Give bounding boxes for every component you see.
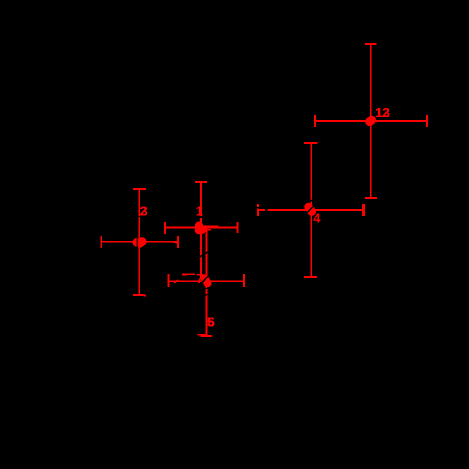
svg-text:13: 13 bbox=[376, 105, 390, 120]
svg-text:6: 6 bbox=[208, 314, 215, 329]
svg-text:7: 7 bbox=[196, 271, 203, 286]
svg-text:1: 1 bbox=[196, 204, 203, 219]
svg-text:3: 3 bbox=[141, 204, 148, 219]
svg-text:4: 4 bbox=[313, 211, 321, 226]
